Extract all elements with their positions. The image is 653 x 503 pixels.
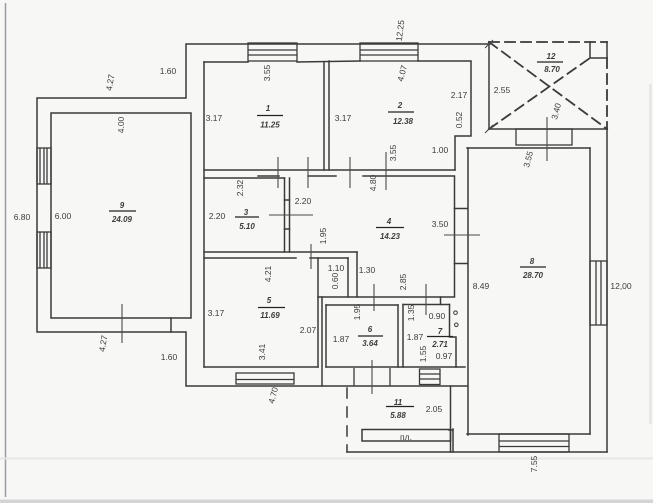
svg-text:3.55: 3.55	[388, 144, 398, 161]
svg-text:4: 4	[386, 217, 392, 226]
svg-text:2.71: 2.71	[431, 340, 448, 349]
svg-text:2.32: 2.32	[235, 179, 245, 196]
svg-text:1.00: 1.00	[432, 145, 449, 155]
svg-text:5.10: 5.10	[239, 222, 255, 231]
svg-text:7: 7	[438, 327, 443, 336]
svg-text:2.20: 2.20	[209, 211, 226, 221]
svg-text:6.80: 6.80	[14, 212, 31, 222]
svg-text:2.05: 2.05	[426, 404, 443, 414]
svg-text:8.70: 8.70	[544, 65, 560, 74]
svg-text:6.00: 6.00	[55, 211, 72, 221]
svg-text:пл.: пл.	[400, 432, 412, 442]
svg-text:2.17: 2.17	[451, 90, 468, 100]
svg-text:3: 3	[244, 208, 249, 217]
svg-text:4.00: 4.00	[116, 116, 126, 133]
svg-text:1.10: 1.10	[328, 263, 345, 273]
svg-text:2.55: 2.55	[494, 85, 511, 95]
svg-text:1: 1	[266, 104, 271, 113]
svg-text:1.60: 1.60	[160, 66, 177, 76]
svg-text:11.69: 11.69	[260, 311, 280, 320]
svg-text:3.55: 3.55	[262, 64, 272, 81]
svg-text:1.95: 1.95	[352, 303, 362, 320]
svg-text:1.60: 1.60	[161, 352, 178, 362]
svg-text:1.87: 1.87	[407, 332, 424, 342]
svg-text:8.49: 8.49	[473, 281, 490, 291]
svg-text:24.09: 24.09	[111, 215, 133, 224]
svg-text:3.17: 3.17	[335, 113, 352, 123]
svg-text:0.52: 0.52	[454, 111, 464, 128]
svg-text:1.55: 1.55	[418, 345, 428, 362]
svg-text:3.64: 3.64	[362, 339, 378, 348]
svg-text:3.41: 3.41	[257, 343, 267, 360]
svg-text:12.38: 12.38	[393, 117, 414, 126]
svg-text:2: 2	[397, 101, 403, 110]
svg-text:9: 9	[120, 201, 125, 210]
svg-text:8: 8	[530, 257, 535, 266]
svg-text:5: 5	[267, 296, 272, 305]
svg-text:14.23: 14.23	[380, 232, 401, 241]
svg-text:3.17: 3.17	[206, 113, 223, 123]
svg-text:1.35: 1.35	[406, 304, 416, 321]
svg-text:28.70: 28.70	[522, 271, 544, 280]
svg-text:1.30: 1.30	[359, 265, 376, 275]
svg-text:2.85: 2.85	[398, 273, 408, 290]
svg-text:1.95: 1.95	[318, 227, 328, 244]
svg-text:0.97: 0.97	[436, 351, 453, 361]
svg-text:12,00: 12,00	[610, 281, 632, 291]
svg-text:3.50: 3.50	[432, 219, 449, 229]
svg-text:11: 11	[394, 398, 403, 407]
svg-text:4.21: 4.21	[263, 265, 273, 282]
svg-text:7.55: 7.55	[529, 455, 539, 472]
svg-text:0.60: 0.60	[330, 272, 340, 289]
svg-text:6: 6	[368, 325, 373, 334]
svg-text:5.88: 5.88	[390, 411, 406, 420]
svg-text:0.90: 0.90	[429, 311, 446, 321]
svg-text:11.25: 11.25	[260, 121, 280, 130]
svg-text:3.17: 3.17	[208, 308, 225, 318]
svg-text:4.80: 4.80	[368, 174, 378, 191]
svg-text:2.07: 2.07	[300, 325, 317, 335]
svg-text:2.20: 2.20	[295, 196, 312, 206]
svg-text:12: 12	[547, 52, 556, 61]
svg-text:1.87: 1.87	[333, 334, 350, 344]
